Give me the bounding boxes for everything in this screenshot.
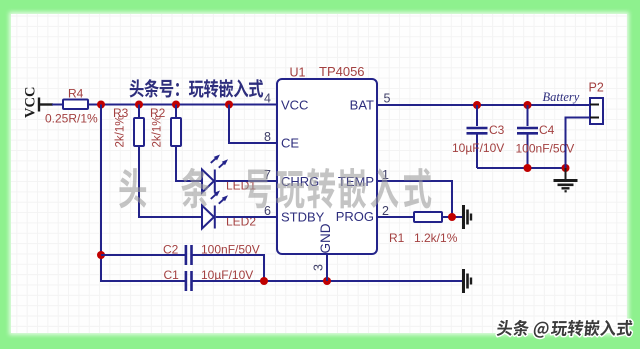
svg-text:1.2k/1%: 1.2k/1% [414, 231, 458, 245]
svg-text:GND: GND [318, 223, 333, 253]
capacitor C2 [186, 245, 192, 265]
wire R4 to U1 VCC pin 4 [88, 104, 277, 106]
LED LED2 arrows [211, 191, 228, 204]
wire rail to C2 [101, 254, 185, 256]
wire R2 to LED1 [176, 146, 202, 181]
wire C3 C4 ground row [477, 167, 566, 169]
resistor R3 [134, 118, 144, 146]
resistor R2 [171, 118, 181, 146]
LED LED1 [202, 170, 215, 193]
junction R1 TEMP [448, 213, 456, 221]
wire R3 to LED2 [139, 146, 202, 217]
svg-text:5: 5 [384, 92, 391, 106]
LED LED2 [202, 206, 215, 229]
svg-text:4: 4 [264, 92, 271, 106]
svg-text:TP4056: TP4056 [319, 64, 365, 79]
svg-text:U1: U1 [290, 66, 306, 80]
watermark 头条 @玩转嵌入式 [496, 320, 513, 336]
junction CE branch [225, 101, 233, 109]
connector P2 pins [590, 105, 599, 118]
svg-text:Battery: Battery [543, 90, 580, 104]
wire GND row [192, 280, 463, 282]
connector P2 body [590, 98, 603, 124]
wire C3 bottom [476, 135, 478, 169]
LED LED1 arrows [211, 155, 228, 168]
svg-text:C1: C1 [164, 268, 180, 282]
svg-text:2: 2 [382, 204, 389, 218]
junction C4 tap [524, 101, 532, 109]
ground R1 [462, 205, 471, 229]
junction left rail [97, 101, 105, 109]
svg-text:3: 3 [312, 264, 326, 271]
svg-text:C4: C4 [539, 123, 555, 137]
svg-text:BAT: BAT [350, 98, 374, 113]
svg-text:STDBY: STDBY [281, 209, 325, 224]
svg-text:P2: P2 [589, 81, 604, 95]
resistor R4 [63, 100, 88, 110]
wire CE branch [229, 105, 277, 144]
svg-text:VCC: VCC [23, 87, 39, 118]
ground GND row [462, 269, 471, 293]
wire TEMP pin 1 [377, 181, 452, 217]
wire left VCC rail [101, 105, 185, 282]
wire LED1 to CHRG pin 7 [216, 180, 277, 182]
svg-text:2k/1%: 2k/1% [152, 116, 164, 148]
wire C2 to GND row [192, 255, 265, 281]
junction P2 ground [562, 164, 570, 172]
schematic title 头条号：玩转嵌入式 [130, 79, 144, 97]
wire P2 pin 2 [566, 118, 591, 169]
capacitor C1 [186, 271, 192, 291]
junction R3 top [135, 101, 143, 109]
junction C4 bottom [524, 164, 532, 172]
svg-text:0.25R/1%: 0.25R/1% [45, 112, 98, 126]
watermark 头条号 玩转嵌入式 [119, 168, 146, 208]
wire LED2 to STDBY pin 6 [216, 216, 277, 218]
junction R2 top [172, 101, 180, 109]
junction GND row left [260, 277, 268, 285]
wire C4 top [527, 105, 529, 126]
junction C3 tap [473, 101, 481, 109]
svg-text:2k/1%: 2k/1% [115, 116, 127, 148]
junction C2 tap [97, 251, 105, 259]
junction GND pin 3 [323, 277, 331, 285]
svg-text:10µF/10V: 10µF/10V [201, 268, 253, 282]
power port VCC [39, 98, 53, 112]
wire R1 to ground [442, 216, 462, 218]
wire PROG pin 2 to R1 [377, 216, 414, 218]
wire BAT to P2 [377, 104, 590, 106]
svg-text:R1: R1 [389, 231, 405, 245]
resistor R1 [414, 212, 442, 222]
wire R2 top stub [175, 105, 177, 119]
svg-text:C2: C2 [163, 243, 179, 257]
svg-text:VCC: VCC [281, 98, 308, 113]
wire R3 top stub [138, 105, 140, 119]
ground below P2 [554, 168, 578, 191]
svg-text:CE: CE [281, 136, 299, 151]
wire C4 bottom [527, 135, 529, 169]
capacitor C3 [467, 128, 488, 133]
op-amp U1 TP4056 body [277, 79, 377, 254]
svg-text:R4: R4 [68, 87, 84, 101]
wire U1 GND pin 3 stub [326, 254, 328, 281]
svg-text:10µF/10V: 10µF/10V [452, 141, 504, 155]
svg-text:PROG: PROG [336, 209, 374, 224]
capacitor C4 [517, 128, 538, 133]
svg-text:8: 8 [264, 130, 271, 144]
wire C3 top [476, 105, 478, 126]
svg-text:C3: C3 [489, 123, 505, 137]
wire VCC to R4 [52, 104, 63, 106]
